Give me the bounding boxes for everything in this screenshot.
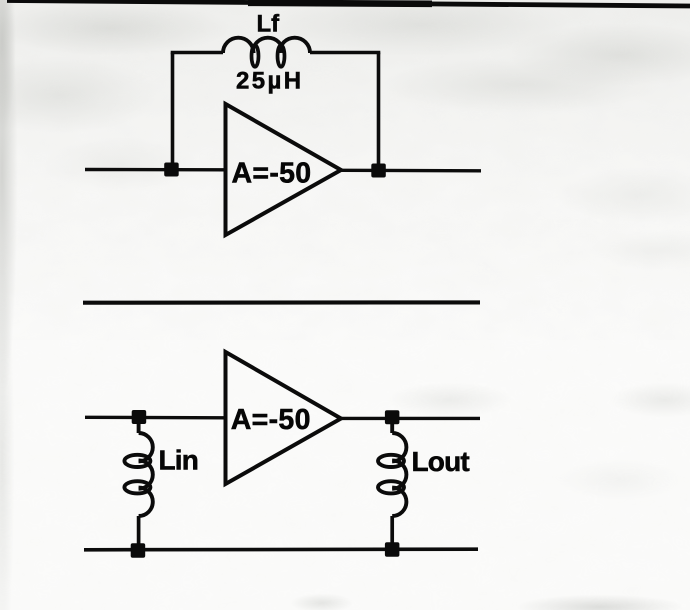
node: ground rail left junction (131, 543, 146, 558)
node: top output junction (371, 164, 386, 178)
op-amp U2 (bottom amplifier, A=-50) (226, 352, 342, 484)
inductor Lf (223, 38, 310, 67)
inductor Lin (124, 422, 152, 546)
wire: bottom ground rail (84, 547, 478, 551)
wire: feedback left vertical (171, 53, 175, 170)
wire: feedback right vertical (377, 53, 381, 171)
svg-text:Lf: Lf (257, 11, 281, 38)
svg-text:Lin: Lin (159, 445, 199, 476)
node: top input junction (164, 163, 179, 177)
wire: feedback top-left segment (171, 51, 223, 55)
op-amp U1 (top amplifier, A=-50) (226, 104, 342, 235)
svg-text:A=-50: A=-50 (232, 158, 312, 190)
top rule (scan page border) (7, 1, 690, 7)
node: bottom rail-top right junction (385, 410, 400, 424)
inductor Lout (378, 422, 406, 546)
svg-text:A=-50: A=-50 (231, 404, 311, 436)
svg-text:25µH: 25µH (236, 68, 303, 95)
svg-text:Lout: Lout (412, 446, 470, 477)
separator rule between figures (83, 300, 480, 304)
wire: top amplifier output lead (340, 169, 481, 173)
wire: bottom circuit top rail, right segment (340, 417, 480, 420)
wire: top amplifier input lead (85, 168, 226, 172)
wire: bottom circuit top rail, left segment (85, 416, 226, 420)
wire: feedback top-right segment (310, 51, 380, 55)
node: ground rail right junction (385, 542, 400, 557)
node: bottom rail-top left junction (132, 410, 147, 424)
